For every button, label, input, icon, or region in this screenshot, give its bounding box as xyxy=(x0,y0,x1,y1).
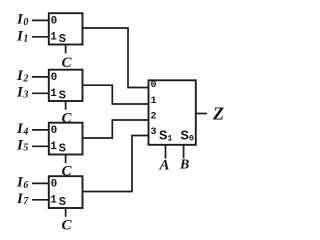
mux M4 box (2-to-1) xyxy=(49,176,83,208)
svg-text:B: B xyxy=(179,158,189,173)
svg-text:C: C xyxy=(62,55,73,71)
svg-text:I2: I2 xyxy=(16,68,28,84)
wire I6 input xyxy=(32,182,49,184)
mux M3 box (2-to-1) xyxy=(49,123,83,155)
svg-text:I4: I4 xyxy=(16,121,28,137)
wire M3 select stub C xyxy=(65,155,67,164)
svg-text:I7: I7 xyxy=(16,191,29,207)
mux M5 box (4-to-1) xyxy=(149,80,196,145)
svg-text:S0: S0 xyxy=(181,129,195,145)
svg-text:1: 1 xyxy=(50,32,57,44)
wire I1 input xyxy=(32,36,49,38)
svg-text:2: 2 xyxy=(151,112,157,123)
svg-text:Z: Z xyxy=(212,104,224,124)
svg-text:I0: I0 xyxy=(16,11,28,27)
svg-text:0: 0 xyxy=(51,179,58,191)
wire M4 select stub C xyxy=(65,208,67,217)
svg-text:S: S xyxy=(59,32,66,46)
svg-text:1: 1 xyxy=(50,195,57,207)
svg-text:S: S xyxy=(59,141,66,155)
svg-text:S1: S1 xyxy=(159,129,173,145)
svg-text:C: C xyxy=(62,217,73,233)
svg-text:S: S xyxy=(59,88,66,102)
mux M1 box (2-to-1) xyxy=(49,13,83,44)
wire M1 output to mux input 0 xyxy=(83,28,149,88)
wire M2 output to mux input 1 xyxy=(83,85,149,104)
svg-text:A: A xyxy=(159,158,170,174)
svg-text:0: 0 xyxy=(151,80,157,91)
svg-text:0: 0 xyxy=(51,125,58,137)
svg-text:I6: I6 xyxy=(16,174,28,190)
wire M2 select stub C xyxy=(65,101,67,110)
svg-text:S: S xyxy=(59,195,66,209)
svg-text:I1: I1 xyxy=(16,28,28,44)
wire select B stub xyxy=(183,145,185,159)
wire M1 select stub C xyxy=(65,45,67,54)
wire I3 input xyxy=(32,92,49,94)
wire M3 output to mux input 2 xyxy=(83,120,149,138)
svg-text:0: 0 xyxy=(51,72,58,84)
svg-text:1: 1 xyxy=(50,141,57,153)
mux M2 box (2-to-1) xyxy=(49,70,83,101)
wire output Z xyxy=(196,113,207,115)
wire I2 input xyxy=(32,76,49,78)
svg-text:0: 0 xyxy=(51,16,58,28)
svg-text:I5: I5 xyxy=(16,137,28,153)
wire I7 input xyxy=(32,199,49,201)
svg-text:C: C xyxy=(62,110,73,126)
svg-text:1: 1 xyxy=(50,88,57,100)
svg-text:3: 3 xyxy=(151,127,157,138)
svg-text:1: 1 xyxy=(151,96,157,107)
wire I0 input xyxy=(32,19,49,21)
svg-text:C: C xyxy=(62,163,73,179)
wire M4 output to mux input 3 xyxy=(83,136,149,192)
svg-text:I3: I3 xyxy=(16,84,28,100)
wire I5 input xyxy=(32,145,49,147)
wire I4 input xyxy=(32,129,49,131)
wire select A stub xyxy=(165,145,167,159)
